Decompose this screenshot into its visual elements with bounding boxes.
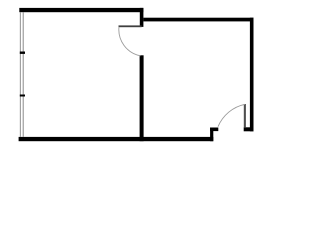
window W1 inner line	[23, 12, 24, 137]
window mullion tick 1	[20, 52, 25, 54]
wall bottom-right upper section	[210, 128, 218, 132]
wall step bottom-right	[210, 128, 213, 142]
wall right exterior	[250, 18, 254, 132]
door D1 swing arc	[119, 27, 141, 56]
window W1 outer line	[19, 12, 22, 137]
door D1 leaf (top, against jog)	[119, 25, 142, 27]
wall top-right exterior	[143, 18, 253, 22]
door D2 swing arc	[218, 104, 245, 126]
door D2 leaf (open, bottom-right)	[244, 104, 246, 127]
wall top-left exterior	[19, 8, 143, 12]
wall interior partition	[140, 55, 144, 141]
wall bottom exterior	[19, 137, 214, 141]
wall stub right-door hinge side	[244, 127, 254, 131]
window mullion tick 2	[20, 95, 25, 97]
wall jog at top door	[140, 8, 144, 27]
